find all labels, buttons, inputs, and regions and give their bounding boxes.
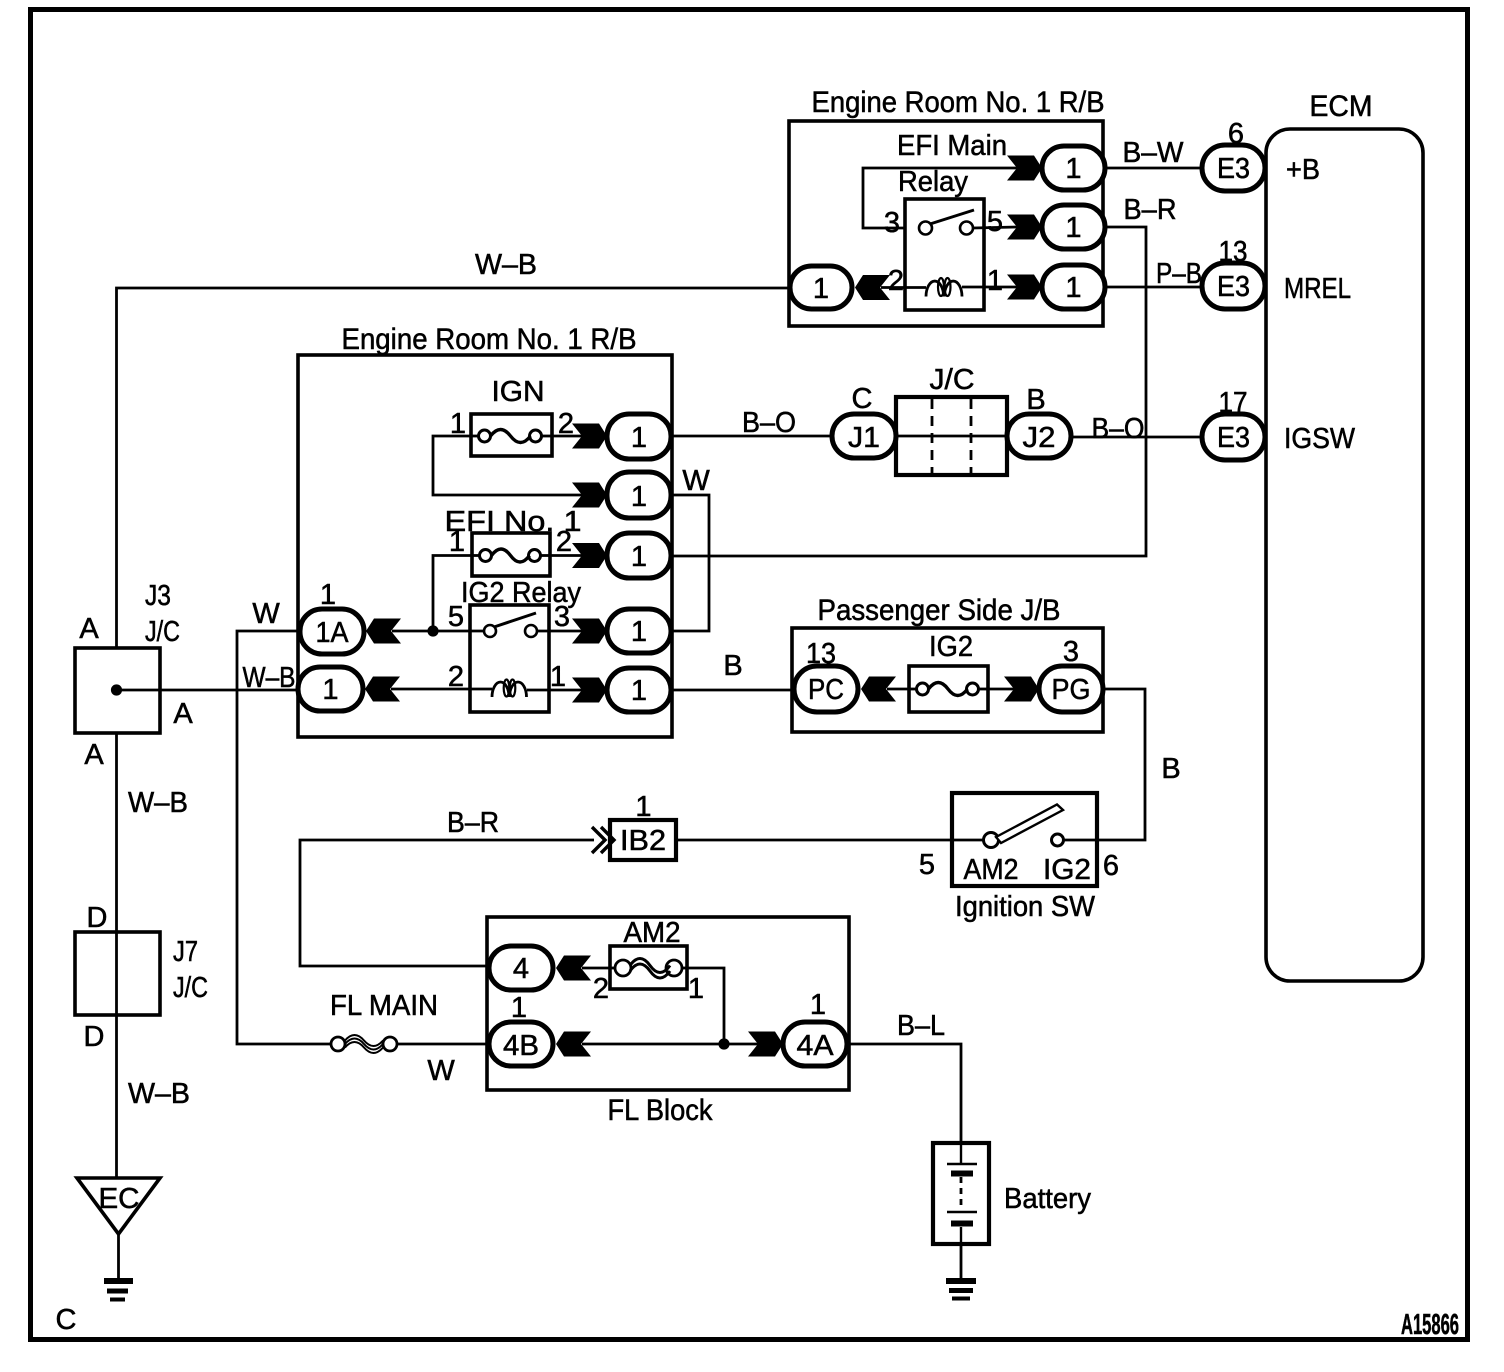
svg-text:4A: 4A: [797, 1030, 835, 1062]
connector 1 (B-R output): [1007, 205, 1105, 249]
svg-text:Engine Room No. 1 R/B: Engine Room No. 1 R/B: [342, 323, 637, 356]
svg-text:W: W: [682, 465, 710, 497]
svg-text:3: 3: [554, 601, 570, 633]
svg-text:2: 2: [556, 526, 572, 558]
svg-text:1: 1: [631, 541, 647, 573]
svg-text:Engine Room No. 1 R/B: Engine Room No. 1 R/B: [812, 86, 1105, 119]
svg-text:D: D: [87, 902, 108, 934]
svg-text:3: 3: [1063, 636, 1079, 668]
svg-text:IGSW: IGSW: [1284, 423, 1356, 455]
svg-text:1: 1: [631, 481, 647, 513]
svg-text:5: 5: [987, 206, 1003, 238]
svg-text:2: 2: [593, 973, 609, 1005]
connector 1 (P-B output): [1007, 265, 1105, 309]
wire W-B long horizontal: [117, 288, 791, 648]
connector 1 (IGN output): [572, 414, 671, 459]
ECM U1: [1266, 90, 1423, 981]
connector PG pin 3: [1004, 636, 1103, 712]
wire B-O from IGN connector to J1: [671, 435, 834, 438]
wire battery to ground: [960, 1244, 963, 1279]
svg-text:W–B: W–B: [128, 1078, 190, 1110]
connector 1 (second, W output): [572, 472, 671, 518]
svg-text:PC: PC: [808, 674, 844, 706]
connector J2: [1007, 384, 1071, 458]
svg-text:EFI Main: EFI Main: [897, 130, 1007, 162]
svg-text:1: 1: [550, 661, 566, 693]
connector E3 pin 17: [1202, 387, 1265, 460]
svg-text:1: 1: [810, 989, 826, 1021]
svg-text:B–L: B–L: [897, 1010, 945, 1042]
svg-text:1: 1: [631, 422, 647, 454]
svg-text:B–R: B–R: [447, 807, 499, 839]
wire PC arrow to fuse: [887, 688, 909, 691]
svg-text:ECM: ECM: [1310, 90, 1373, 123]
svg-text:B–O: B–O: [742, 407, 796, 439]
svg-text:FL Block: FL Block: [608, 1094, 714, 1127]
wire W from 1A down to FL MAIN: [237, 631, 331, 1044]
svg-text:1: 1: [688, 973, 704, 1005]
wire coil pin1 to P-B connector: [962, 286, 1018, 289]
wire B from PG down to ignition SW pin 6: [1064, 689, 1146, 840]
svg-text:MREL: MREL: [1284, 273, 1351, 305]
connector 4B pin 1: [489, 992, 591, 1066]
wire AM2 fuse pin1 down to 4A node: [687, 968, 724, 1044]
wire IG2 relay pin3 to connector: [537, 630, 583, 633]
svg-text:1: 1: [1065, 212, 1081, 244]
svg-text:C: C: [56, 1304, 77, 1336]
svg-text:J3: J3: [145, 580, 171, 612]
svg-text:W–B: W–B: [128, 787, 188, 819]
svg-text:B–R: B–R: [1124, 194, 1177, 226]
wire through J/C: [896, 435, 1007, 438]
svg-text:FL MAIN: FL MAIN: [330, 990, 438, 1022]
svg-text:A: A: [173, 698, 193, 730]
svg-text:J/C: J/C: [173, 972, 208, 1004]
connector IB2 pin 1: [592, 791, 676, 860]
svg-text:B–W: B–W: [1123, 137, 1185, 169]
connector 4 (AM2 feed): [489, 946, 591, 990]
wire W-B down to EC: [115, 733, 118, 1178]
wire B-L from 4A to battery: [847, 1044, 961, 1143]
junction dot (AM2/4A node): [718, 1038, 729, 1049]
svg-text:Passenger Side J/B: Passenger Side J/B: [818, 594, 1061, 627]
wire 1A to IG2 relay pin5: [392, 630, 484, 633]
wire B-R from relay output down to EFI No.1 fuse output: [671, 227, 1146, 556]
svg-text:EC: EC: [99, 1183, 140, 1215]
ground (left): [104, 1281, 133, 1300]
wire coil pin2 to W-B connector: [881, 286, 926, 289]
svg-text:1: 1: [1065, 272, 1081, 304]
wire AM2 fuse pin2 to connector 4: [582, 967, 610, 970]
svg-text:B: B: [723, 650, 742, 682]
battery BAT: [933, 1143, 1091, 1244]
connector 4A pin 1: [748, 989, 847, 1066]
wire EFI fuse pin2 to connector: [550, 554, 583, 557]
svg-text:IG2: IG2: [929, 631, 973, 663]
svg-text:5: 5: [448, 601, 464, 633]
wire EC to ground: [117, 1234, 120, 1279]
svg-text:A15866: A15866: [1401, 1309, 1459, 1341]
svg-text:3: 3: [884, 207, 900, 239]
svg-text:2: 2: [888, 265, 904, 297]
svg-text:1: 1: [987, 265, 1003, 297]
svg-text:C: C: [852, 383, 873, 415]
fuse AM2 (FL block): [610, 917, 687, 989]
svg-text:1: 1: [631, 616, 647, 648]
wire relay pin3 up to B-W connector: [863, 168, 1018, 228]
svg-text:W: W: [252, 598, 280, 630]
junction connector J/C (J1-J2): [896, 364, 1007, 475]
junction connector J3 J/C: [75, 580, 180, 733]
junction block Engine Room No. 1 R/B (top): [789, 86, 1105, 326]
svg-text:W: W: [427, 1055, 455, 1087]
svg-text:1: 1: [631, 675, 647, 707]
svg-text:J1: J1: [848, 422, 880, 454]
svg-text:A: A: [84, 739, 104, 771]
svg-text:17: 17: [1219, 387, 1248, 419]
fuse EFI No. 1: [445, 506, 582, 576]
svg-text:W–B: W–B: [475, 249, 537, 281]
svg-text:D: D: [84, 1021, 105, 1053]
connector 1 (EFI No.1 output): [572, 533, 671, 578]
connector 1 (IG2 relay contact output): [572, 609, 671, 653]
svg-text:Relay: Relay: [898, 166, 968, 198]
svg-text:B: B: [1026, 384, 1045, 416]
junction connector J7 J/C: [75, 902, 208, 1015]
switch Ignition SW: [952, 793, 1097, 886]
wire B to PC: [671, 689, 794, 692]
wire relay pin5 to B-R connector: [973, 227, 1018, 228]
svg-text:Battery: Battery: [1004, 1183, 1091, 1215]
wire B-R from FL block to IB2: [300, 840, 594, 966]
connector 1 (IG2 coil output, B): [572, 668, 671, 712]
wire 4B to 4A: [582, 1043, 759, 1046]
svg-text:E3: E3: [1217, 271, 1250, 303]
svg-text:B–O: B–O: [1092, 413, 1145, 445]
svg-text:J/C: J/C: [145, 616, 180, 648]
wire IG2 fuse to PG: [988, 688, 1015, 691]
wire FL MAIN to 4B: [397, 1043, 489, 1046]
svg-text:5: 5: [919, 849, 935, 881]
svg-text:1: 1: [813, 273, 829, 305]
ground (battery): [946, 1281, 976, 1299]
svg-text:PG: PG: [1052, 674, 1091, 706]
svg-text:IG2: IG2: [1043, 854, 1091, 886]
ground point EC: [77, 1178, 160, 1234]
svg-text:IGN: IGN: [492, 376, 545, 408]
junction block Engine Room No. 1 R/B (middle): [298, 323, 672, 737]
wire IGN fuse pin1 branch down: [433, 436, 583, 495]
svg-text:P–B: P–B: [1156, 258, 1202, 290]
svg-text:E3: E3: [1217, 422, 1250, 454]
svg-text:1A: 1A: [316, 617, 350, 649]
svg-text:Ignition SW: Ignition SW: [955, 891, 1096, 923]
wire P-B to E3: [1105, 286, 1202, 289]
wire B-R IB2 to ignition switch: [676, 839, 985, 842]
connector E3 pin 13: [1202, 236, 1265, 309]
svg-text:13: 13: [1219, 236, 1248, 268]
svg-text:1: 1: [322, 674, 338, 706]
svg-text:J7: J7: [173, 936, 198, 968]
fusible link FL MAIN: [331, 1035, 397, 1053]
wire EFI fuse pin1 down to relay coil row: [433, 556, 472, 632]
connector E3 pin 6: [1202, 118, 1265, 191]
junction dot (EFI No.1 / relay 5 node): [427, 625, 438, 636]
wire IG2 coil pin1 to connector: [527, 689, 583, 692]
svg-text:1: 1: [1065, 153, 1081, 185]
svg-text:+B: +B: [1286, 154, 1320, 186]
fuse IGN: [471, 376, 552, 456]
connector J1: [832, 383, 896, 458]
fuse IG2 (Passenger J/B): [909, 631, 988, 712]
svg-text:1: 1: [449, 526, 465, 558]
junction dot J3: [111, 684, 122, 695]
connector 1A (W feed): [300, 579, 401, 654]
svg-text:1: 1: [320, 579, 336, 611]
junction block Passenger Side J/B: [792, 594, 1103, 732]
wire B-W to E3: [1105, 167, 1202, 170]
svg-text:1: 1: [511, 992, 527, 1024]
svg-text:6: 6: [1103, 850, 1119, 882]
block FL Block: [487, 917, 849, 1127]
svg-text:AM2: AM2: [964, 854, 1019, 886]
svg-text:4: 4: [513, 953, 529, 985]
wire coil pin2 to left connector: [391, 688, 492, 691]
connector 1 (W-B coil feed, left): [790, 266, 890, 309]
svg-text:4B: 4B: [503, 1030, 539, 1062]
wire IGN fuse pin2 to connector: [552, 435, 583, 438]
svg-text:E3: E3: [1217, 153, 1250, 185]
connector 1 (B-W output): [1007, 146, 1105, 190]
wire W loop right of box: [671, 495, 709, 631]
svg-text:6: 6: [1228, 118, 1244, 150]
svg-text:J2: J2: [1023, 422, 1056, 454]
wire B-O from J2 to E3: [1071, 436, 1202, 439]
relay IG2 K2: [461, 577, 581, 712]
svg-text:IB2: IB2: [620, 825, 666, 857]
relay EFI Main K1: [897, 130, 1007, 310]
svg-text:B: B: [1161, 753, 1180, 785]
connector 1 (W-B coil return): [298, 667, 400, 711]
svg-text:A: A: [79, 613, 99, 645]
svg-text:J/C: J/C: [930, 364, 975, 396]
connector PC pin 13: [794, 638, 896, 712]
wire W-B from J3 junction to connector: [117, 689, 299, 692]
